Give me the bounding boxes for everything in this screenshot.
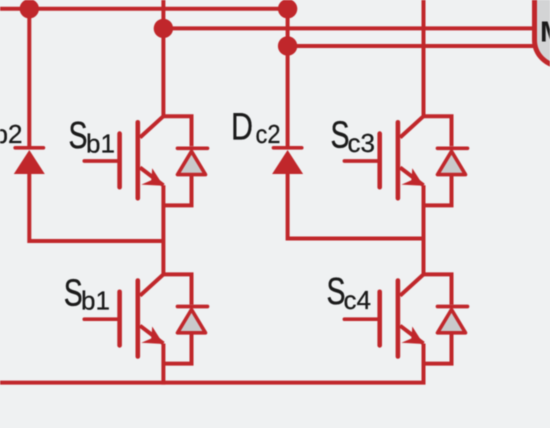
- svg-text:D: D: [231, 107, 253, 149]
- diode: freewheel across S_c4: [438, 307, 468, 333]
- svg-text:b1: b1: [86, 129, 115, 159]
- wire: b-leg lower emitter to bottom bus: [161, 344, 165, 385]
- svg-text:c3: c3: [348, 128, 375, 158]
- wire: b-leg upper vertical: [161, 0, 165, 116]
- wire: D_b2 cathode drop from bus: [27, 9, 31, 146]
- node: junction dot D_b2 / top bus: [20, 0, 39, 19]
- svg-text:M: M: [540, 16, 550, 48]
- node: junction dot D_c2 / top bus end: [278, 0, 297, 19]
- wire: freewheel diode bottom to emitter: [163, 175, 191, 206]
- wire: b-leg midpoint vertical: [161, 185, 165, 274]
- wire: c-leg midpoint vertical: [422, 185, 426, 274]
- transistor S_c4 (lower IGBT, phase c): [344, 274, 423, 356]
- wire: S_c4 freewheel diode bottom to emitter: [424, 333, 452, 364]
- wire: lower S_b1 collector to freewheel diode top: [163, 274, 191, 304]
- diode: freewheel across S_c3: [438, 148, 468, 174]
- transistor S_b1 (upper IGBT, phase b): [84, 116, 163, 198]
- wire: S_b1 collector to freewheel diode top: [163, 116, 191, 146]
- svg-text:S: S: [69, 115, 88, 157]
- wire: lower freewheel diode bottom to emitter: [163, 333, 191, 364]
- transistor S_b1 (lower IGBT, phase b): [84, 274, 163, 356]
- svg-text:c2: c2: [256, 119, 281, 149]
- wire: top DC bus: [0, 7, 288, 11]
- wire: S_c3 freewheel diode bottom to emitter: [424, 175, 452, 206]
- svg-text:b2: b2: [0, 119, 22, 149]
- wire: phase-b output line to motor: [163, 26, 537, 30]
- wire: D_c2 anode to c-leg midpoint: [288, 174, 424, 239]
- transistor S_c3 (upper IGBT, phase c): [344, 116, 423, 198]
- wire: phase-c output line to motor: [288, 44, 537, 48]
- svg-text:c4: c4: [344, 285, 371, 315]
- svg-text:b1: b1: [81, 286, 110, 316]
- wire: bottom bus with c-leg emitter riser: [0, 344, 424, 383]
- wire: S_c3 collector to freewheel diode top: [424, 116, 452, 146]
- diode: freewheel across lower S_b1: [178, 307, 208, 333]
- motor M1: [535, 0, 550, 66]
- wire: S_c4 collector to freewheel diode top: [424, 274, 452, 304]
- wire: D_c2 cathode drop from bus: [286, 9, 290, 146]
- svg-text:S: S: [64, 273, 83, 315]
- node: junction dot phase-c tap: [278, 36, 297, 55]
- diode D_c2: [272, 148, 303, 174]
- diode D_b2: [14, 148, 45, 174]
- wire: D_b2 anode to b-leg midpoint: [29, 174, 163, 241]
- wire: c-leg upper vertical: [422, 0, 426, 116]
- node: junction dot phase-b tap: [154, 19, 173, 38]
- diode: freewheel across upper S_b1: [178, 148, 208, 174]
